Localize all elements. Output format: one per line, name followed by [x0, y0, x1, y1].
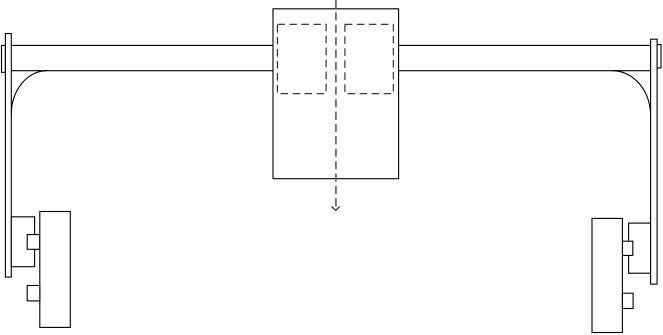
left mounting block: [40, 212, 71, 328]
left middle tab: [27, 235, 40, 250]
right vertical bar: [651, 39, 658, 284]
right bottom tab: [622, 293, 633, 308]
left fillet curve: [11, 71, 47, 115]
right dashed opening: [345, 24, 393, 93]
left end plate tab: [2, 45, 6, 72]
left dashed opening: [277, 24, 326, 93]
left bracket plate: [11, 217, 34, 267]
left vertical bar: [5, 34, 11, 278]
right end plate tab: [657, 45, 661, 68]
right mounting block: [592, 218, 622, 332]
crossmember top edge line: [11, 44, 650, 46]
right bracket plate: [629, 223, 651, 273]
central housing box: [273, 9, 399, 179]
vertical dashed centerline: [335, 0, 337, 208]
right fillet curve: [612, 71, 650, 116]
right middle tab: [622, 241, 633, 255]
left bottom tab: [27, 286, 40, 301]
centerline arrowhead: [332, 207, 340, 211]
crossmember bottom edge line: [11, 70, 650, 72]
